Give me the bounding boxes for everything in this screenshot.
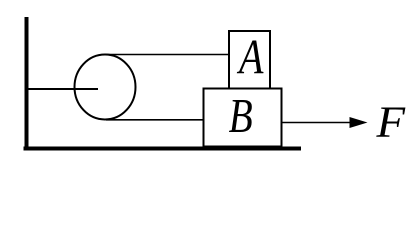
svg-text:A: A: [236, 29, 263, 84]
block B: [204, 89, 282, 147]
force arrow line: [282, 122, 353, 124]
block A: [229, 31, 270, 89]
force arrowhead: [350, 117, 368, 128]
wall: [25, 17, 29, 147]
svg-text:B: B: [229, 88, 253, 143]
axle wire: [29, 88, 99, 90]
svg-text:F: F: [375, 97, 406, 147]
pulley: [75, 55, 136, 120]
rope bottom: [106, 119, 203, 121]
rope top: [105, 54, 229, 56]
floor: [24, 147, 302, 151]
